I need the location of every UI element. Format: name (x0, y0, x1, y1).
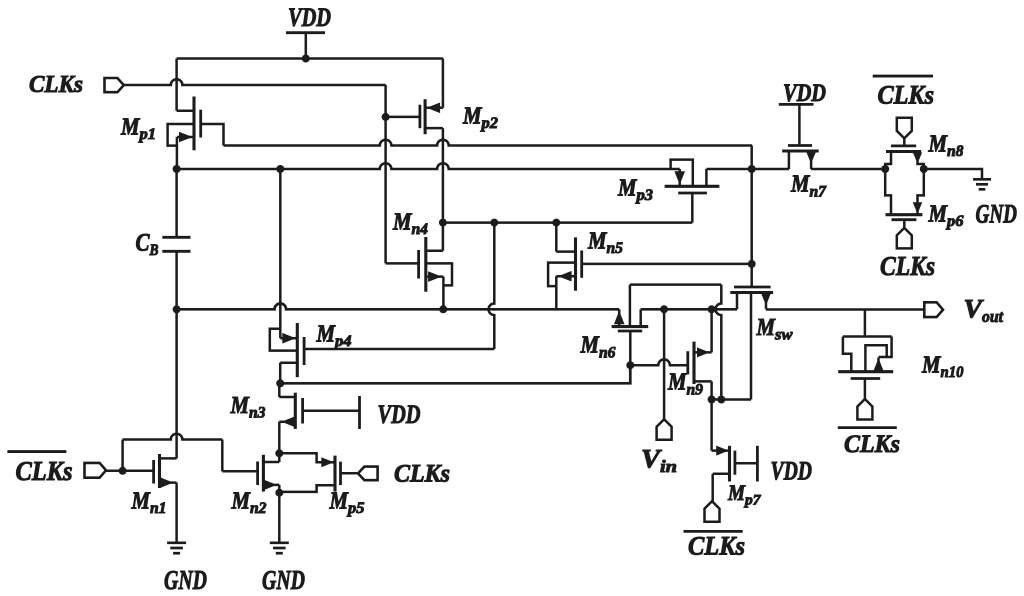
label Mn1 (131, 488, 167, 517)
node VDD (Mn7 gate) (779, 78, 826, 146)
wire bottom plate rail (177, 304, 620, 310)
wire CB bottom to Mn1 drain (175, 309, 178, 458)
svg-text:p1: p1 (137, 126, 156, 143)
svg-text:CLKs: CLKs (688, 532, 745, 561)
svg-text:CLKs: CLKs (29, 72, 83, 98)
wire CLKs-bar to Mn2 gate (123, 434, 223, 472)
svg-text:VDD: VDD (771, 457, 813, 486)
label GND (right) (976, 199, 1018, 229)
label VDD (Mp7) (771, 457, 813, 486)
wire VDD rail to Mp1 source (175, 59, 178, 111)
transistor Mn4 (419, 237, 452, 309)
svg-text:GND: GND (164, 565, 207, 595)
wire Mp2 gate stub (386, 116, 420, 119)
junction TG left node (881, 165, 889, 173)
label Msw (756, 315, 793, 344)
transistor Mp2 (420, 59, 443, 135)
svg-text:out: out (982, 307, 1004, 326)
input port CLKs-bar (Mp7) (705, 501, 720, 522)
svg-text:n6: n6 (599, 344, 616, 361)
wire Mn3 source to Mn2 drain (278, 453, 281, 462)
junction node A at Mn5 drain (552, 219, 560, 227)
node VDD (top supply) (286, 3, 331, 59)
svg-text:p2: p2 (479, 115, 498, 132)
junction Vin node (660, 305, 668, 313)
svg-text:M: M (790, 172, 811, 198)
svg-text:n8: n8 (947, 143, 964, 160)
svg-text:n2: n2 (250, 500, 267, 517)
junction Mn3 source node (275, 449, 283, 457)
svg-text:M: M (462, 104, 483, 130)
svg-text:CLKs: CLKs (16, 456, 73, 486)
junction Msw gate node (748, 260, 756, 268)
label Mp3 (617, 175, 653, 204)
svg-text:p4: p4 (333, 333, 352, 350)
label Mn7 (790, 172, 827, 201)
svg-text:VDD: VDD (378, 400, 421, 429)
wire boost node rail (Mp1 source) (177, 163, 680, 169)
label Vout (964, 294, 1005, 326)
svg-text:p6: p6 (945, 213, 964, 230)
label CLKs (Mp6) (880, 251, 935, 281)
transistor Mn1 (154, 454, 177, 543)
svg-text:CLKs: CLKs (844, 431, 900, 458)
transistor Msw (730, 287, 773, 309)
junction node A at Mp4 gate (490, 219, 498, 227)
svg-text:n9: n9 (687, 381, 704, 398)
input port CLKs-bar (left) (85, 463, 107, 478)
svg-text:VDD: VDD (288, 3, 331, 32)
transistor Mn6 (612, 309, 649, 365)
label Mp1 (120, 115, 156, 144)
svg-text:CLKs: CLKs (878, 81, 935, 110)
label Mp2 (462, 104, 498, 133)
svg-text:B: B (149, 242, 159, 259)
wire TG to ground (924, 169, 982, 179)
svg-text:p5: p5 (346, 500, 365, 517)
wire VDD rail (177, 57, 443, 60)
svg-text:M: M (667, 370, 688, 396)
svg-text:CLKs: CLKs (394, 461, 450, 488)
wire boosted gate vertical (750, 146, 753, 288)
label Mn6 (580, 333, 616, 362)
ground GND (Mn2) (270, 493, 289, 554)
input port Vin (657, 309, 672, 440)
wire Msw bulk stem (750, 293, 753, 400)
label GND (Mn2) (262, 565, 305, 595)
input port CLKs-bar (Mn8) (897, 118, 912, 139)
junction Mn6 bulk node (717, 396, 725, 404)
svg-text:p3: p3 (634, 187, 653, 204)
svg-text:n4: n4 (412, 221, 429, 238)
svg-text:M: M (329, 488, 350, 514)
label Mn3 (230, 393, 266, 422)
input port CLKs (105, 78, 124, 92)
junction Mn9 source node (708, 305, 716, 313)
junction boosted gate node (748, 165, 756, 173)
transistor Mp4 (270, 169, 304, 383)
junction VDD rail (302, 55, 310, 63)
svg-text:M: M (120, 115, 141, 141)
svg-text:n7: n7 (810, 183, 827, 200)
junction CB bottom node (173, 305, 181, 313)
label Mn5 (587, 229, 623, 258)
wire Mp4 drain rail to Mn6 gate (280, 365, 630, 383)
junction boost node at CB (173, 165, 181, 173)
junction Mn4 source node (439, 305, 447, 313)
label Mn10 (921, 352, 963, 381)
transistor Mn10 (838, 310, 893, 400)
label CLKs-bar (Mn8) (873, 76, 934, 109)
label CLKs-bar (Mn10) (838, 428, 900, 458)
wire Mn9 gate rail (630, 359, 688, 365)
label VDD (Mn3) (378, 400, 421, 429)
wire bulk tie rail (712, 398, 751, 401)
wire Mp2 drain to node A (442, 128, 445, 251)
wire node A to Mp4 gate (488, 223, 494, 349)
input port CLKs-bar (Mn10) (857, 399, 872, 420)
wire Mn6 drain to Msw (641, 308, 737, 311)
junction Mp4 source tap (276, 165, 284, 173)
svg-text:M: M (727, 480, 746, 505)
label Vin (641, 444, 677, 476)
label CLKs-bar (Mp7) (684, 531, 746, 560)
label Mn2 (231, 488, 267, 517)
wire Mn6 bulk loop (630, 285, 721, 400)
transistor Mn8 (885, 138, 924, 169)
svg-text:M: M (231, 488, 252, 514)
capacitor CB (162, 169, 190, 309)
wire gate-feedback (Mp1 gate rail) (224, 140, 753, 146)
transistor Mn7 (782, 146, 819, 170)
svg-text:M: M (131, 488, 152, 514)
wire node A to Mn5 drain (555, 223, 558, 252)
label CLKs (29, 72, 83, 98)
wire Mn5 gate rail (582, 263, 752, 266)
transistor Mp1 (168, 97, 224, 170)
transistor Mn2 (222, 455, 279, 493)
transistor Mn9 (688, 309, 712, 399)
svg-text:M: M (316, 322, 337, 348)
label Mn4 (392, 209, 428, 238)
svg-text:M: M (756, 315, 777, 341)
ground GND (right) (973, 179, 991, 189)
transistor Mp7 (712, 400, 758, 502)
label Mn8 (928, 132, 964, 161)
input port CLKs (Mp6) (897, 228, 912, 249)
svg-text:M: M (230, 393, 251, 419)
svg-text:VDD: VDD (783, 78, 826, 107)
svg-text:GND: GND (976, 199, 1018, 229)
transistor Mp5 (279, 453, 358, 492)
junction node A at Mp2 drain (439, 219, 447, 227)
output port CLKs (latch) (358, 467, 378, 481)
label Mn9 (667, 370, 703, 399)
transistor Mn3 (279, 383, 359, 453)
terminal VDD bar (Mn3 gate) (358, 396, 361, 429)
svg-text:n3: n3 (249, 405, 266, 422)
transistor Mn5 (548, 237, 582, 309)
svg-text:C: C (136, 229, 150, 256)
wire CLKs-bar net (106, 470, 154, 473)
svg-text:CLKs: CLKs (880, 251, 935, 281)
terminal VDD bar (Mp7 gate) (756, 446, 759, 482)
svg-text:M: M (580, 333, 601, 359)
svg-text:n10: n10 (941, 364, 964, 381)
wire node A rail (443, 221, 692, 224)
wire Mp3 drain to Mn7 (706, 168, 789, 171)
svg-text:n5: n5 (607, 240, 624, 257)
svg-text:M: M (617, 175, 638, 201)
svg-text:GND: GND (262, 565, 305, 595)
label Mp5 (329, 488, 365, 517)
junction Mn9 drain node (708, 396, 716, 404)
svg-text:M: M (587, 229, 608, 255)
junction Mp4 drain node (276, 379, 284, 387)
label Mp4 (316, 322, 352, 351)
wire Mn4 gate stub (386, 262, 419, 265)
wire Msw drain to Vout (766, 308, 924, 311)
wire CLKs net (123, 79, 386, 85)
wire Mp4 gate rail (304, 348, 494, 351)
label GND (Mn1) (164, 565, 207, 595)
wire Mn7 to transmission gate (811, 168, 885, 171)
svg-text:p7: p7 (743, 492, 761, 508)
junction TG right node (920, 165, 928, 173)
junction Mn2 source node (275, 489, 283, 497)
wire CLKs to Mp2 gate (384, 85, 387, 263)
svg-text:M: M (928, 202, 949, 228)
junction CLKs-bar node (119, 467, 127, 475)
label CLKs (latch) (394, 461, 450, 488)
svg-text:sw: sw (774, 327, 793, 344)
label CB (136, 229, 159, 259)
label Mp6 (928, 202, 964, 231)
svg-text:M: M (921, 352, 942, 378)
transistor Mp3 (665, 160, 720, 223)
junction Mn6 gate node (626, 361, 634, 369)
output port Vout (924, 302, 943, 317)
junction Mp2 gate node (382, 113, 390, 121)
svg-text:in: in (660, 457, 677, 476)
ground GND (Mn1) (167, 543, 186, 553)
svg-text:n1: n1 (150, 500, 167, 517)
svg-text:M: M (392, 209, 413, 235)
label CLKs-bar (left) (7, 452, 72, 487)
label Mp7 (727, 480, 761, 509)
transistor Mp6 (885, 169, 924, 228)
svg-text:M: M (928, 132, 949, 158)
